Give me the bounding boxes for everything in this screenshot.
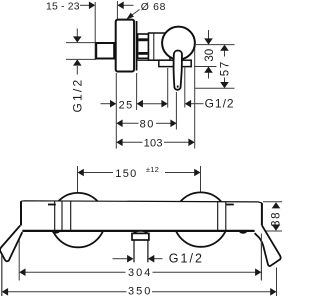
dim 350 lines xyxy=(7,291,127,293)
svg-text:25: 25 xyxy=(119,99,134,111)
wire extension 350 right xyxy=(276,268,278,297)
wire outlet extension right xyxy=(184,68,186,108)
component lever xyxy=(174,51,182,90)
wire outlet centerline xyxy=(175,92,177,130)
leader Ø68 arrowhead xyxy=(126,13,133,20)
drawing outlines, front view xyxy=(0,192,281,266)
dim 25 arrowheads xyxy=(110,100,116,108)
svg-text:G1/2: G1/2 xyxy=(205,96,235,110)
component escutcheon echo edge xyxy=(136,21,138,71)
wire extension 304 left xyxy=(18,236,20,281)
dim 350 arrowheads xyxy=(2,288,8,296)
dim G1/2 right arrowhead xyxy=(185,100,191,108)
wire extension 150 right xyxy=(200,166,202,194)
component outlet collar xyxy=(132,233,149,240)
dim 80 arrowheads xyxy=(116,120,122,128)
dim 80 lines xyxy=(122,122,139,124)
wire outlet extension left xyxy=(167,68,169,108)
svg-text:38: 38 xyxy=(271,211,283,227)
component lever tip bump xyxy=(134,231,148,233)
dim 103 lines xyxy=(122,141,143,143)
wire body joint xyxy=(153,34,155,60)
wire extension 150 left xyxy=(77,166,79,196)
dim G1/2 left: arrow tails xyxy=(76,29,78,38)
wire extension 25 right xyxy=(136,73,138,110)
wire extension 103 (front of handle) xyxy=(194,46,196,149)
component escutcheon circle left xyxy=(51,193,105,247)
wire extension 304 right xyxy=(260,234,262,281)
component outlet nipple xyxy=(133,240,135,262)
dim G1/2 bottom arrowheads xyxy=(127,255,133,263)
dim 30 arrow tails xyxy=(208,30,210,39)
svg-text:80: 80 xyxy=(140,119,155,131)
component inlet pipe nipple xyxy=(96,43,114,59)
svg-text:G1/2: G1/2 xyxy=(169,251,204,265)
handle dome inner arc xyxy=(162,31,167,54)
dim 30 arrowheads xyxy=(204,38,213,44)
svg-text:57: 57 xyxy=(220,60,232,76)
bar tick left xyxy=(48,204,56,206)
svg-text:G1/2: G1/2 xyxy=(71,78,85,113)
dim 57 arrow tails xyxy=(224,51,226,57)
dim 15-23 arrows xyxy=(80,4,90,6)
wire bar joint lines right xyxy=(217,201,219,230)
dim 150 lines xyxy=(83,172,113,174)
dim 304 arrowheads xyxy=(19,268,25,276)
dim 25 arrows xyxy=(101,103,111,105)
svg-text:Ø 68: Ø 68 xyxy=(141,2,166,13)
lever tip screw dot xyxy=(177,85,179,87)
svg-text:150: 150 xyxy=(115,168,137,180)
wire body bottom line xyxy=(137,59,162,61)
component right supply pipe xyxy=(255,225,281,266)
wire bar joint lines left xyxy=(54,201,56,230)
svg-text:350: 350 xyxy=(128,286,152,298)
wire extension 25 left xyxy=(115,73,117,149)
component union nut xyxy=(138,34,149,58)
wire extension line3 xyxy=(195,87,235,89)
component escutcheon circle right xyxy=(174,192,228,246)
wire extension 350 left xyxy=(1,255,3,296)
under-bar bump right xyxy=(239,232,247,234)
dim G1/2 left: extension lines xyxy=(66,42,95,44)
component outlet boss xyxy=(159,60,191,66)
wire wall extension line (15-23 left) xyxy=(94,2,96,60)
component mixer body bar xyxy=(20,201,262,231)
wire extension lines over pipes xyxy=(2,234,262,297)
wire extension line2 (outlet face) xyxy=(194,66,217,68)
bar tick right xyxy=(226,204,234,206)
dim 304 lines xyxy=(25,271,126,273)
wire extension line (15-23 right) xyxy=(116,1,118,19)
under-bar bump left xyxy=(52,232,60,234)
drawing outlines, side view xyxy=(96,20,195,90)
wire extension line1 (axis) xyxy=(196,44,235,46)
leader Ø68 xyxy=(130,10,140,17)
svg-text:30: 30 xyxy=(204,49,216,62)
svg-text:±12: ±12 xyxy=(146,165,159,174)
dim 15-23 arrowheads xyxy=(89,2,95,10)
component left supply pipe xyxy=(0,226,22,262)
dim 150 arrowheads xyxy=(78,169,84,177)
dim 38: extension lines xyxy=(263,201,282,203)
svg-text:15 - 23: 15 - 23 xyxy=(46,1,80,12)
svg-text:103: 103 xyxy=(144,138,163,150)
component handle dome xyxy=(162,27,195,60)
dim G1/2 bottom arrows xyxy=(113,258,128,260)
component cartridge body xyxy=(149,33,171,60)
dim 57 arrowheads xyxy=(220,45,229,51)
dim G1/2 left arrowheads xyxy=(73,36,82,42)
dim 103 arrowheads xyxy=(116,139,122,147)
dim 38 arrowheads xyxy=(272,202,281,208)
dim G1/2 right arrow tail xyxy=(191,103,204,105)
svg-text:304: 304 xyxy=(128,267,152,279)
component escutcheon (side) xyxy=(116,20,134,72)
